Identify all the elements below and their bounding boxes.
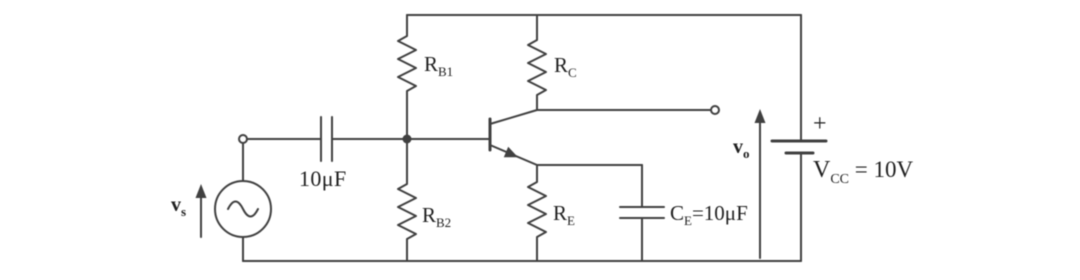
resistor RB1 [398,15,416,139]
wire input terminal to capacitor [247,138,320,140]
wire right rail lower segment [800,154,802,261]
resistor RE [528,165,546,261]
wire capacitor to base node [332,138,407,140]
svg-text:+: + [813,111,827,137]
source Vs circle [215,181,271,237]
wire emitter to CE capacitor [537,164,642,166]
svg-text:RB2: RB2 [422,203,451,230]
wire top rail [407,14,801,16]
svg-text:CE=10μF: CE=10μF [670,201,748,228]
arrow vs line [200,196,202,237]
transistor Q1 emitter lead [490,145,537,165]
resistor RC [528,15,546,110]
svg-text:VCC = 10V: VCC = 10V [813,157,914,187]
battery VCC positive plate [772,140,826,143]
svg-text:RB1: RB1 [424,52,453,79]
arrow vo line [759,122,761,258]
input terminal circle [239,135,247,143]
wire collector output [537,109,711,111]
output terminal circle [711,106,719,114]
svg-text:RE: RE [553,201,575,228]
capacitor C1 plates [321,117,332,161]
wire CE top lead [641,165,643,206]
arrow vo head [755,109,766,123]
wire base node to transistor base [407,138,489,140]
svg-text:vo: vo [733,136,750,161]
svg-text:vs: vs [171,194,186,219]
node base junction dot [403,135,412,144]
svg-text:10μF: 10μF [299,166,347,191]
capacitor CE plates [620,207,664,218]
transistor Q1 base bar [489,119,492,150]
battery VCC negative plate [786,152,813,155]
svg-text:RC: RC [554,53,577,80]
arrow vs head [196,184,207,198]
resistor RB2 [398,139,416,261]
wire source bottom lead [242,237,244,261]
wire bottom rail [243,260,801,262]
wire source top lead [242,143,244,181]
wire right rail upper segment [800,15,802,140]
source Vs sine symbol [228,202,258,217]
transistor Q1 emitter arrowhead [504,147,518,158]
transistor Q1 collector lead [490,110,537,124]
wire CE bottom lead [641,219,643,261]
